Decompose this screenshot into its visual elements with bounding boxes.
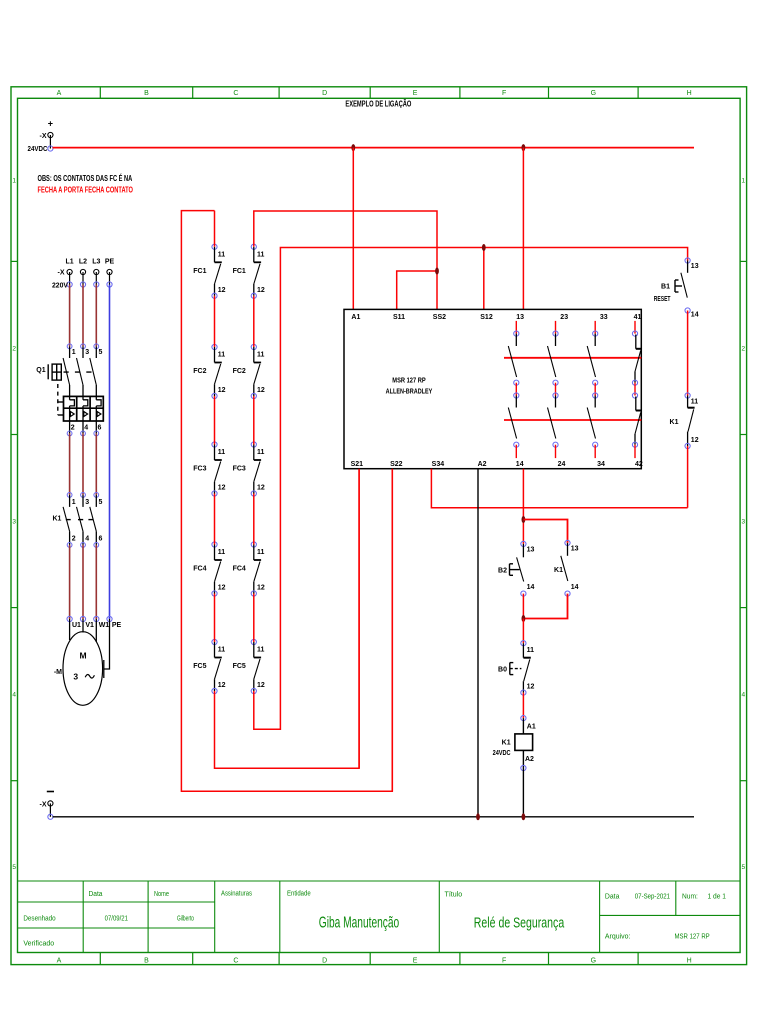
wire Q1 to K1 (3 phases) xyxy=(69,433,71,495)
wire B0 to coil A1 xyxy=(522,693,524,719)
svg-text:K1: K1 xyxy=(670,419,679,426)
svg-text:FC5: FC5 xyxy=(233,663,246,670)
svg-text:FC4: FC4 xyxy=(193,566,206,573)
wire S21 xyxy=(358,469,360,769)
svg-text:33: 33 xyxy=(600,314,608,321)
svg-text:L3: L3 xyxy=(92,259,100,266)
svg-text:11: 11 xyxy=(257,647,265,654)
svg-text:4: 4 xyxy=(741,692,745,699)
circuit breaker Q1 xyxy=(36,344,102,415)
junction coil A2 bus xyxy=(522,813,526,820)
svg-text:12: 12 xyxy=(257,287,265,294)
svg-text:FC1: FC1 xyxy=(193,268,206,275)
terminal -X 0V (-) xyxy=(40,792,55,820)
wire 24V to A1 xyxy=(352,148,354,310)
svg-text:V1: V1 xyxy=(85,622,94,629)
svg-text:6: 6 xyxy=(98,425,102,432)
relay internal bus line lower xyxy=(504,419,641,421)
wires FC series left column xyxy=(214,296,216,347)
wire L1 to Q1 xyxy=(69,285,71,347)
svg-text:OBS: OS CONTATOS DAS FC É NA: OBS: OS CONTATOS DAS FC É NA xyxy=(38,173,133,183)
svg-text:2: 2 xyxy=(741,345,745,352)
svg-text:U1: U1 xyxy=(72,622,81,629)
wire S12 branch xyxy=(483,248,485,310)
svg-text:12: 12 xyxy=(218,485,226,492)
svg-text:-X: -X xyxy=(40,133,47,140)
junction 13 bus xyxy=(522,144,526,151)
svg-text:K1: K1 xyxy=(52,516,61,523)
svg-text:S22: S22 xyxy=(390,461,403,468)
svg-text:S21: S21 xyxy=(351,461,364,468)
svg-text:L2: L2 xyxy=(79,259,87,266)
limit switch FC1 (NC contact) xyxy=(233,244,265,298)
svg-text:A: A xyxy=(57,957,62,964)
svg-text:-X: -X xyxy=(40,801,47,808)
svg-text:11: 11 xyxy=(257,449,265,456)
svg-text:C: C xyxy=(233,90,238,97)
svg-text:1: 1 xyxy=(12,177,16,184)
svg-text:-M: -M xyxy=(54,669,62,676)
svg-text:4: 4 xyxy=(85,535,89,542)
svg-text:14: 14 xyxy=(527,584,535,591)
svg-text:11: 11 xyxy=(257,352,265,359)
svg-text:23: 23 xyxy=(560,314,568,321)
safety relay U1 MSR 127 RP box xyxy=(344,309,641,468)
title block table xyxy=(18,881,741,953)
svg-text:11: 11 xyxy=(218,647,226,654)
svg-text:Título: Título xyxy=(445,892,463,899)
junction S12 xyxy=(482,244,486,251)
limit switch FC5 (NC contact) xyxy=(233,639,265,693)
svg-text:11: 11 xyxy=(218,449,226,456)
junction B2/K1 bottom xyxy=(522,615,526,622)
svg-text:E: E xyxy=(413,957,418,964)
svg-text:FC5: FC5 xyxy=(193,663,206,670)
svg-text:PE: PE xyxy=(105,259,115,266)
limit switch FC2 (NC contact) xyxy=(233,344,265,398)
svg-text:1 de 1: 1 de 1 xyxy=(708,894,727,901)
svg-text:1: 1 xyxy=(741,177,745,184)
wire branch to K1 13 xyxy=(523,520,567,543)
svg-text:11: 11 xyxy=(691,398,699,405)
svg-text:11: 11 xyxy=(257,252,265,259)
svg-text:12: 12 xyxy=(218,682,226,689)
svg-text:11: 11 xyxy=(218,352,226,359)
terminal -X 24VDC (+) xyxy=(28,119,54,153)
svg-text:-X: -X xyxy=(58,270,65,277)
limit switch FC2 (NC contact) xyxy=(193,344,225,398)
svg-text:3: 3 xyxy=(85,499,89,506)
svg-text:ALLEN-BRADLEY: ALLEN-BRADLEY xyxy=(386,387,433,396)
svg-text:Entidade: Entidade xyxy=(287,891,311,898)
relay internal NC contact 41-42 xyxy=(632,321,641,458)
svg-text:Arquivo:: Arquivo: xyxy=(605,934,631,941)
svg-text:5: 5 xyxy=(741,864,745,871)
svg-text:FC2: FC2 xyxy=(193,368,206,375)
relay internal NO contacts 33-34 xyxy=(587,321,598,458)
svg-text:Giba Manutenção: Giba Manutenção xyxy=(319,915,399,932)
svg-text:12: 12 xyxy=(257,585,265,592)
svg-text:MSR 127 RP: MSR 127 RP xyxy=(392,376,425,385)
svg-text:11: 11 xyxy=(257,549,265,556)
svg-text:Desenhado: Desenhado xyxy=(23,916,55,923)
wire L2 to Q1 xyxy=(82,285,84,347)
wire FC5 right to S12 and B1 xyxy=(254,248,688,730)
svg-text:EXEMPLO DE LIGAÇÃO: EXEMPLO DE LIGAÇÃO xyxy=(345,99,411,109)
svg-text:PE: PE xyxy=(112,622,122,629)
svg-text:G: G xyxy=(591,957,596,964)
svg-text:A: A xyxy=(57,90,62,97)
svg-text:Verificado: Verificado xyxy=(23,941,54,948)
svg-text:RESET: RESET xyxy=(654,296,671,303)
svg-text:14: 14 xyxy=(516,461,524,468)
svg-text:14: 14 xyxy=(691,312,699,319)
svg-text:13: 13 xyxy=(516,314,524,321)
svg-text:12: 12 xyxy=(691,437,699,444)
svg-text:W1: W1 xyxy=(99,622,110,629)
junction A1 bus xyxy=(351,144,355,151)
limit switch FC3 (NC contact) xyxy=(233,442,265,496)
wire bus to FC1 left xyxy=(214,211,216,247)
svg-text:24VDC: 24VDC xyxy=(493,750,511,757)
wire S22 chain bus left xyxy=(181,211,392,792)
push button B0 (NC) xyxy=(498,641,534,696)
svg-text:12: 12 xyxy=(218,287,226,294)
wire 14 down xyxy=(522,469,524,544)
svg-text:07/09/21: 07/09/21 xyxy=(105,916,128,923)
wire 24V to terminal 13 xyxy=(522,148,524,310)
svg-text:24: 24 xyxy=(558,461,566,468)
wire K1 to motor (3 phases) xyxy=(69,545,71,619)
svg-text:MSR 127 RP: MSR 127 RP xyxy=(675,934,710,941)
svg-text:2: 2 xyxy=(72,535,76,542)
svg-text:F: F xyxy=(502,957,506,964)
svg-text:FC3: FC3 xyxy=(193,466,206,473)
svg-text:FC1: FC1 xyxy=(233,268,246,275)
svg-text:K1: K1 xyxy=(502,740,511,747)
svg-text:3: 3 xyxy=(12,519,16,526)
svg-text:1: 1 xyxy=(72,499,76,506)
wire A2 to 0V xyxy=(477,469,479,817)
svg-text:FC4: FC4 xyxy=(233,566,246,573)
svg-text:D: D xyxy=(322,957,327,964)
thermal overload block xyxy=(64,396,104,435)
wire FC5 left to S21 xyxy=(215,469,360,769)
svg-text:D: D xyxy=(322,90,327,97)
wire +24V bus xyxy=(53,147,695,149)
svg-text:E: E xyxy=(413,90,418,97)
auxiliary contact K1 11-12 (NC) xyxy=(670,393,699,449)
relay internal NO contacts 23-24 xyxy=(548,321,559,458)
svg-text:Relé de Segurança: Relé de Segurança xyxy=(474,915,565,932)
wire PE xyxy=(109,285,111,620)
svg-text:42: 42 xyxy=(635,461,643,468)
svg-text:S11: S11 xyxy=(393,314,405,321)
push button B2 (NO) xyxy=(498,541,534,596)
svg-text:Data: Data xyxy=(89,891,103,898)
svg-text:4: 4 xyxy=(12,692,16,699)
svg-text:C: C xyxy=(233,957,238,964)
svg-text:12: 12 xyxy=(257,485,265,492)
wire to B0 xyxy=(522,619,524,644)
svg-text:H: H xyxy=(687,957,692,964)
svg-text:3: 3 xyxy=(73,672,78,682)
svg-text:11: 11 xyxy=(218,252,226,259)
junction A2 bus xyxy=(476,813,480,820)
svg-text:6: 6 xyxy=(99,535,103,542)
auxiliary contact K1 13-14 (NO) xyxy=(554,540,579,596)
svg-text:13: 13 xyxy=(527,546,535,553)
svg-text:B0: B0 xyxy=(498,667,507,674)
wire right chain top to S11/SS2 xyxy=(254,211,437,309)
svg-text:3: 3 xyxy=(741,519,745,526)
relay internal bus line upper xyxy=(504,357,641,359)
wire K1 aux to S34 xyxy=(687,446,689,508)
svg-text:11: 11 xyxy=(218,549,226,556)
relay top pin labels xyxy=(351,314,641,321)
svg-text:B: B xyxy=(144,957,149,964)
junction 14/B2/K1 xyxy=(522,516,526,523)
wire S22 xyxy=(391,469,393,792)
svg-text:12: 12 xyxy=(257,387,265,394)
wire B2 bottom / K1 bottom join xyxy=(522,594,524,619)
svg-text:L1: L1 xyxy=(66,259,74,266)
push button B1 RESET (NO) xyxy=(654,258,699,319)
svg-text:S12: S12 xyxy=(480,314,493,321)
svg-text:M: M xyxy=(79,651,86,661)
svg-text:14: 14 xyxy=(571,584,579,591)
svg-text:2: 2 xyxy=(71,425,75,432)
svg-text:5: 5 xyxy=(12,864,16,871)
svg-text:S34: S34 xyxy=(432,461,445,468)
svg-text:12: 12 xyxy=(527,684,535,691)
terminal -X 220V (L1 L2 L3 PE) xyxy=(52,259,114,290)
svg-text:4: 4 xyxy=(84,425,88,432)
wire L3 to Q1 xyxy=(95,285,97,347)
limit switch FC4 (NC contact) xyxy=(193,542,225,596)
wires FC series right column xyxy=(253,296,255,347)
relay coil K1 24VDC xyxy=(493,716,536,817)
svg-text:A1: A1 xyxy=(351,314,360,321)
wire B1 to K1 aux xyxy=(687,311,689,396)
svg-text:12: 12 xyxy=(218,585,226,592)
svg-text:SS2: SS2 xyxy=(433,314,446,321)
limit switch FC1 (NC contact) xyxy=(193,244,225,298)
title block text xyxy=(23,891,726,948)
svg-text:24VDC: 24VDC xyxy=(28,146,48,153)
svg-text:12: 12 xyxy=(257,682,265,689)
relay bottom pin labels xyxy=(351,461,643,468)
svg-text:K1: K1 xyxy=(554,567,563,574)
svg-text:B2: B2 xyxy=(498,567,507,574)
svg-text:Data: Data xyxy=(605,894,620,901)
svg-text:13: 13 xyxy=(691,263,699,270)
motor M 3~ xyxy=(54,616,122,705)
svg-text:3: 3 xyxy=(85,349,89,356)
relay internal NO contacts 13-14 xyxy=(508,321,519,458)
wire 0V bus xyxy=(53,816,695,818)
svg-text:5: 5 xyxy=(99,499,103,506)
svg-text:A2: A2 xyxy=(478,461,487,468)
limit switch FC4 (NC contact) xyxy=(233,542,265,596)
junction SS2/S11 xyxy=(435,268,439,275)
svg-text:Num:: Num: xyxy=(682,894,698,901)
wire S34 xyxy=(431,469,687,508)
svg-text:Assinaturas: Assinaturas xyxy=(221,891,252,898)
svg-text:Nome: Nome xyxy=(154,891,169,898)
svg-text:41: 41 xyxy=(634,314,642,321)
svg-text:G: G xyxy=(591,90,596,97)
svg-text:+: + xyxy=(48,119,53,129)
limit switch FC3 (NC contact) xyxy=(193,442,225,496)
svg-text:11: 11 xyxy=(527,647,535,654)
svg-text:07-Sep-2021: 07-Sep-2021 xyxy=(635,894,670,901)
svg-text:FECHA A PORTA FECHA CONTATO: FECHA A PORTA FECHA CONTATO xyxy=(38,185,134,195)
limit switch FC5 (NC contact) xyxy=(193,639,225,693)
contactor K1 main contacts xyxy=(52,493,102,548)
svg-text:220V: 220V xyxy=(52,282,68,289)
svg-text:A2: A2 xyxy=(525,756,534,763)
svg-text:1: 1 xyxy=(72,349,76,356)
svg-text:13: 13 xyxy=(571,545,579,552)
svg-text:Q1: Q1 xyxy=(36,367,45,374)
svg-text:34: 34 xyxy=(597,461,605,468)
svg-text:H: H xyxy=(687,90,692,97)
svg-text:12: 12 xyxy=(218,387,226,394)
svg-text:B: B xyxy=(144,90,149,97)
svg-text:FC2: FC2 xyxy=(233,368,246,375)
svg-text:5: 5 xyxy=(99,349,103,356)
svg-text:B1: B1 xyxy=(661,283,670,290)
svg-text:2: 2 xyxy=(12,345,16,352)
wire S11 branch xyxy=(397,271,437,309)
svg-text:A1: A1 xyxy=(527,723,536,730)
svg-text:Gilberto: Gilberto xyxy=(177,916,194,923)
svg-text:FC3: FC3 xyxy=(233,466,246,473)
svg-text:F: F xyxy=(502,90,506,97)
